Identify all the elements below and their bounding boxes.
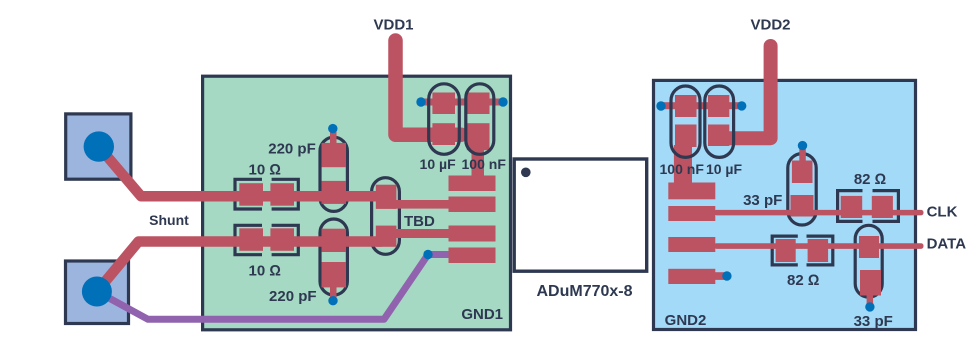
label 33 pF CLK [743, 192, 782, 209]
capacitor C2 outline (100 nF left) [466, 84, 494, 155]
resistor R1 pads [239, 183, 294, 206]
label ADuM770x-8 [536, 283, 632, 300]
label Shunt [149, 212, 189, 228]
svg-text:VDD1: VDD1 [373, 16, 413, 33]
wire VDD2 trace [727, 46, 771, 138]
label 220 pF bottom [269, 288, 317, 305]
pin pad U1 pin row right 1 [668, 183, 715, 200]
svg-text:82 Ω: 82 Ω [854, 171, 886, 188]
via at C2 right [498, 97, 507, 106]
capacitor C5 outline (100 nF right) [671, 86, 700, 157]
wire via bar C5-C6 top [661, 102, 742, 109]
op-amp U1 pin-1 marker [521, 168, 531, 178]
label VDD2 [750, 16, 790, 33]
label 100 nF left [462, 156, 507, 172]
pin pad U1 pin row left 1 [449, 176, 496, 192]
resistor R1 outline (10 Ohm top) [235, 179, 298, 209]
wire feed 100nF right to pin pad [674, 145, 692, 185]
via at C5 left [656, 101, 665, 110]
connector pad J1 square [66, 114, 131, 179]
via on purple trace [423, 250, 432, 259]
wire via bar C1-C2 top [421, 99, 503, 106]
label GND1 [461, 306, 503, 323]
via at C6 right [737, 101, 746, 110]
capacitor C8 pads + via stub (33 pF DATA) [859, 236, 881, 307]
label 10 Ohm bottom [249, 262, 281, 279]
capacitor C6 outline (10 uF right) [705, 86, 734, 157]
label DATA [927, 235, 967, 252]
pin pad U1 pin row left 2 [449, 197, 496, 213]
resistor R4 outline (82 Ohm DATA) [772, 236, 833, 265]
wire stub TBD to pin2 [393, 200, 450, 209]
svg-text:10 µF: 10 µF [420, 156, 457, 172]
capacitor C1 outline (10 uF left) [429, 84, 460, 155]
resistor R2 outline (10 Ohm bottom) [235, 225, 298, 254]
resistor R4 pads [776, 239, 829, 262]
svg-text:82 Ω: 82 Ω [787, 272, 819, 289]
via at C8 bottom [865, 302, 874, 311]
svg-text:10 Ω: 10 Ω [249, 162, 281, 179]
wire feed 100nF to pin pad [472, 144, 485, 177]
connector pad J2 hole [82, 277, 112, 307]
pin pad U1 pin row right 3 [668, 237, 715, 252]
capacitor C4 pads + via stub [322, 229, 347, 301]
svg-text:Shunt: Shunt [149, 212, 189, 228]
wire purple shunt-return trace [97, 255, 451, 320]
component TBD pads [376, 185, 397, 247]
label 33 pF DATA [854, 313, 893, 330]
wire row1 trace from J1 [99, 147, 382, 197]
label 10 uF right [706, 161, 743, 177]
pin pad U1 pin row right 2 [668, 206, 715, 221]
via at pin4 right [722, 271, 731, 280]
wire row2 trace from J2 [97, 242, 382, 292]
label 100 nF right [660, 161, 705, 177]
capacitor C8 outline (33 pF DATA) [855, 225, 882, 297]
label CLK [927, 203, 958, 220]
label 82 Ohm DATA [787, 272, 819, 289]
label 10 Ohm top [249, 162, 281, 179]
svg-text:100 nF: 100 nF [660, 161, 705, 177]
pin pad U1 pin row left 3 [449, 226, 496, 242]
connector pad J2 square [66, 261, 129, 324]
via at C4 bottom [328, 296, 337, 305]
ground plane GND2 [654, 80, 916, 329]
wire stub pin4 right to via [715, 272, 726, 280]
label VDD1 [373, 16, 413, 33]
label GND2 [665, 312, 707, 329]
svg-text:10 µF: 10 µF [706, 161, 743, 177]
svg-text:33 pF: 33 pF [743, 192, 782, 209]
svg-text:33 pF: 33 pF [854, 313, 893, 330]
capacitor C3 pads + via stub [322, 128, 347, 204]
capacitor C6 pads (10 uF right) [708, 95, 729, 146]
capacitor C3 outline (220 pF top) [320, 137, 347, 211]
svg-text:ADuM770x-8: ADuM770x-8 [536, 283, 632, 300]
wire stub TBD to pin3 [393, 229, 450, 238]
svg-text:TBD: TBD [404, 213, 435, 230]
svg-text:220 pF: 220 pF [269, 288, 317, 305]
svg-text:100 nF: 100 nF [462, 156, 507, 172]
pin pad U1 pin row right 4 [668, 269, 715, 284]
capacitor C7 outline (33 pF CLK) [788, 154, 816, 225]
label 10 uF left [420, 156, 457, 172]
wire VDD1 trace [396, 41, 462, 135]
op-amp U1 ADuM770x-8 body [514, 159, 647, 271]
svg-text:VDD2: VDD2 [750, 16, 790, 33]
wire CLK trace [714, 210, 924, 216]
component TBD outline [372, 178, 400, 255]
svg-text:GND1: GND1 [461, 306, 503, 323]
connector pad J1 hole [84, 131, 114, 161]
svg-text:GND2: GND2 [665, 312, 707, 329]
label 220 pF top [268, 141, 316, 158]
wire DATA trace [714, 243, 924, 249]
svg-text:220 pF: 220 pF [268, 141, 316, 158]
pin pad U1 pin row left 4 [449, 248, 496, 264]
capacitor C4 outline (220 pF bottom) [320, 219, 347, 295]
capacitor C5 pads (100 nF right) [675, 95, 697, 147]
via at C7 top [798, 141, 807, 150]
via at C3 top [328, 124, 337, 133]
capacitor C1 pads (10 uF left) [432, 93, 455, 146]
resistor R3 outline (82 Ohm CLK) [838, 191, 899, 222]
label 82 Ohm CLK [854, 171, 886, 188]
label TBD [404, 213, 435, 230]
capacitor C2 pads (100 nF left) [467, 93, 490, 151]
via at C1 left [416, 97, 425, 106]
svg-text:CLK: CLK [927, 203, 958, 220]
ground plane GND1 [203, 76, 511, 330]
resistor R3 pads [841, 196, 893, 218]
svg-text:10 Ω: 10 Ω [249, 262, 281, 279]
resistor R2 pads [239, 228, 294, 251]
svg-text:DATA: DATA [927, 235, 967, 252]
capacitor C7 pads + via stub (33 pF CLK) [791, 146, 814, 217]
